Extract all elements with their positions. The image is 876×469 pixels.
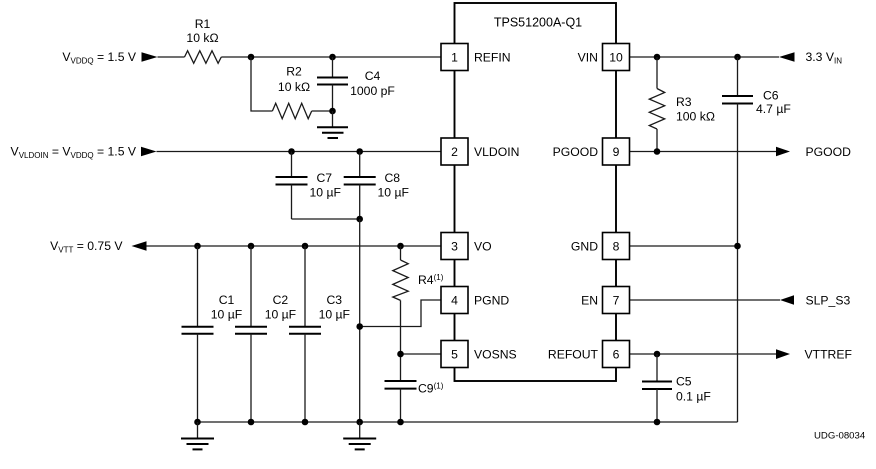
wire bottom ground bus: [198, 421, 738, 423]
svg-text:TPS51200A-Q1: TPS51200A-Q1: [494, 16, 582, 30]
node junction C2 top: [248, 243, 255, 250]
svg-text:10 µF: 10 µF: [211, 307, 242, 321]
input arrow SLP_S3: [780, 295, 794, 305]
svg-text:7: 7: [613, 293, 620, 307]
wire VOSNS to R4/C9: [401, 353, 442, 355]
capacitor C6 4.7 uF: [722, 57, 791, 422]
pin 1 REFIN: [441, 44, 511, 71]
node junction C5 bottom: [654, 419, 661, 426]
pin 7 EN: [581, 287, 629, 314]
capacitor C5 0.1 uF: [642, 354, 711, 422]
node junction C9 bottom: [397, 419, 404, 426]
wire GND pin to rail: [630, 245, 738, 247]
svg-text:C3: C3: [327, 293, 343, 307]
svg-text:GND: GND: [571, 239, 598, 253]
svg-text:10 kΩ: 10 kΩ: [186, 31, 218, 45]
svg-text:VTTREF: VTTREF: [805, 347, 852, 361]
svg-text:C9(1): C9(1): [418, 382, 444, 396]
svg-text:C1: C1: [219, 293, 235, 307]
svg-text:REFOUT: REFOUT: [548, 347, 599, 361]
node junction GND rail: [734, 243, 741, 250]
svg-text:R2: R2: [286, 65, 302, 79]
pin 9 PGOOD: [553, 138, 630, 165]
resistor R1 10 kOhm: [185, 17, 222, 63]
capacitor C8 10 uF: [344, 152, 409, 220]
svg-text:C6: C6: [763, 89, 779, 103]
svg-text:VO: VO: [474, 239, 492, 253]
wire net VIN row: [630, 56, 780, 58]
pin 5 VOSNS: [441, 341, 517, 368]
wire net PGOOD row: [630, 151, 777, 153]
node junction C4 top on REFIN: [329, 54, 336, 61]
node junction R2/C4: [329, 108, 336, 115]
svg-text:VVLDOIN = VVDDQ = 1.5 V: VVLDOIN = VVDDQ = 1.5 V: [11, 145, 137, 160]
node junction C3 top: [302, 243, 309, 250]
wire net REFOUT row: [630, 353, 777, 355]
input arrow VDDQ: [142, 52, 158, 62]
pin 4 PGND: [441, 287, 509, 314]
svg-text:10: 10: [609, 50, 623, 64]
svg-text:C7: C7: [317, 171, 333, 185]
svg-text:10 kΩ: 10 kΩ: [278, 80, 310, 94]
svg-text:5: 5: [451, 347, 458, 361]
svg-text:8: 8: [613, 239, 620, 253]
output arrow PGOOD: [776, 147, 790, 157]
svg-text:R3: R3: [676, 95, 692, 109]
svg-text:3: 3: [451, 239, 458, 253]
capacitor C4 1000 pF: [317, 57, 395, 111]
svg-text:VIN: VIN: [578, 50, 598, 64]
svg-text:VVTT = 0.75 V: VVTT = 0.75 V: [50, 239, 123, 254]
svg-text:C5: C5: [676, 375, 692, 389]
node junction C5 top: [654, 351, 661, 358]
svg-text:9: 9: [613, 145, 620, 159]
svg-text:VLDOIN: VLDOIN: [474, 145, 519, 159]
node junction R4 top: [397, 243, 404, 250]
pin 2 VLDOIN: [441, 138, 519, 165]
node junction R4/C9/VOSNS: [397, 351, 404, 358]
input arrow 3.3 VIN: [779, 52, 795, 62]
svg-text:10 µF: 10 µF: [319, 307, 350, 321]
svg-text:UDG-08034: UDG-08034: [814, 431, 866, 442]
capacitor C3 10 uF: [289, 246, 350, 422]
svg-text:EN: EN: [581, 293, 598, 307]
node junction PGND rail: [356, 323, 363, 330]
resistor R4 (1): [393, 246, 444, 381]
pin 8 GND: [571, 233, 630, 260]
svg-text:6: 6: [613, 347, 620, 361]
svg-text:1000 pF: 1000 pF: [350, 84, 395, 98]
ground middle: [343, 422, 376, 449]
svg-text:VOSNS: VOSNS: [474, 347, 517, 361]
wire vertical rail x360 to ground bus: [359, 219, 361, 422]
node junction R2 tap on REFIN: [248, 54, 255, 61]
svg-text:VVDDQ = 1.5 V: VVDDQ = 1.5 V: [62, 50, 136, 65]
wire R2 branch: [251, 57, 333, 111]
svg-text:PGOOD: PGOOD: [553, 145, 599, 159]
node junction C3 bottom: [302, 419, 309, 426]
capacitor C2 10 uF: [235, 246, 296, 422]
node junction C8 top: [356, 148, 363, 155]
svg-text:4.7 µF: 4.7 µF: [756, 102, 791, 116]
svg-text:10 µF: 10 µF: [265, 307, 296, 321]
pin 3 VO: [441, 233, 492, 260]
svg-text:4: 4: [451, 293, 458, 307]
ground at C4: [317, 111, 348, 138]
IC U1 body TPS51200A-Q1: [455, 3, 617, 381]
wire C7 to C8 bottom link: [292, 218, 360, 220]
ground left: [181, 422, 214, 449]
node junction R3 bottom: [654, 148, 661, 155]
node junction C6 top: [734, 54, 741, 61]
svg-text:1: 1: [451, 50, 458, 64]
wire net VLDOIN row: [157, 151, 442, 153]
svg-text:10 µF: 10 µF: [310, 186, 341, 200]
output arrow VTT: [132, 241, 147, 251]
svg-text:2: 2: [451, 145, 458, 159]
pin 10 VIN: [578, 44, 630, 71]
svg-text:PGND: PGND: [474, 293, 509, 307]
capacitor C7 10 uF: [276, 152, 341, 220]
node junction C8 bottom: [356, 216, 363, 223]
resistor R3 100 kOhm: [649, 57, 715, 152]
svg-text:REFIN: REFIN: [474, 50, 511, 64]
wire PGND to ground rail: [360, 300, 442, 327]
svg-text:SLP_S3: SLP_S3: [806, 293, 851, 307]
svg-text:C2: C2: [273, 293, 289, 307]
wire net EN row: [630, 299, 781, 301]
svg-text:PGOOD: PGOOD: [806, 145, 852, 159]
node junction C7 top: [288, 148, 295, 155]
capacitor C1 10 uF: [182, 246, 243, 422]
svg-text:10 µF: 10 µF: [378, 186, 409, 200]
svg-text:C8: C8: [385, 171, 401, 185]
output arrow VTTREF: [776, 349, 790, 359]
resistor R2 10 kOhm: [272, 65, 311, 119]
svg-text:100 kΩ: 100 kΩ: [676, 110, 715, 124]
node junction C1 top: [194, 243, 201, 250]
node junction C2 bottom: [248, 419, 255, 426]
node junction C1 bottom: [194, 419, 201, 426]
svg-text:R4(1): R4(1): [418, 273, 444, 287]
capacitor C9 (1): [385, 381, 444, 422]
svg-text:C4: C4: [365, 69, 381, 83]
node junction rail x360 bottom: [356, 419, 363, 426]
node junction R3 top: [654, 54, 661, 61]
pin 6 REFOUT: [548, 341, 630, 368]
input arrow VLDOIN: [141, 147, 157, 157]
svg-text:R1: R1: [195, 17, 211, 31]
svg-text:3.3 VIN: 3.3 VIN: [806, 50, 843, 65]
svg-text:0.1 µF: 0.1 µF: [676, 390, 711, 404]
wire net VDDQ row (REFIN input): [158, 56, 442, 58]
wire net VTT row (VO output): [147, 245, 442, 247]
